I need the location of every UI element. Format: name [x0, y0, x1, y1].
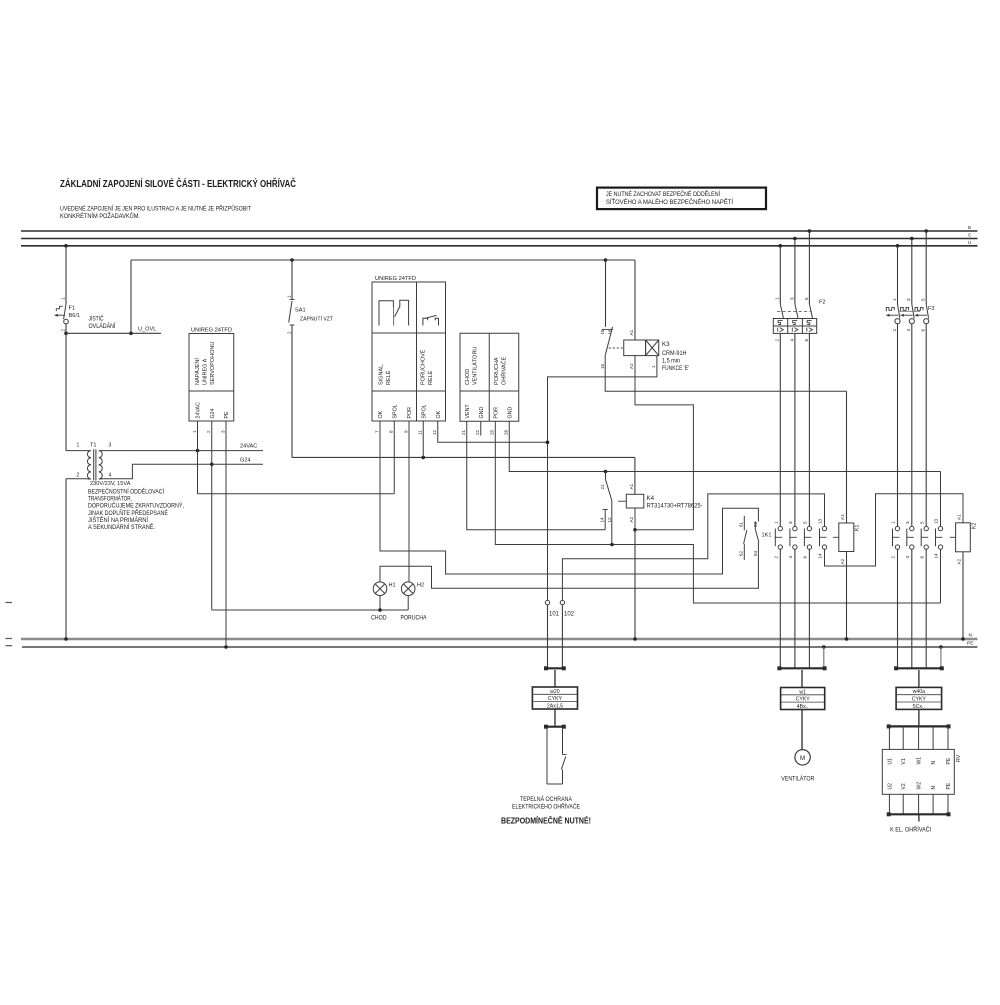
- svg-text:JE NUTNÉ ZACHOVAT BEZPEČNÉ ODD: JE NUTNÉ ZACHOVAT BEZPEČNÉ ODDĚLENÍ: [606, 190, 720, 198]
- terminal 102: [560, 600, 564, 604]
- svg-text:A SEKUNDÁRNÍ STRANĚ.: A SEKUNDÁRNÍ STRANĚ.: [88, 523, 155, 531]
- svg-text:U: U: [968, 240, 971, 245]
- svg-text:21: 21: [461, 429, 466, 435]
- svg-text:F3: F3: [928, 306, 935, 312]
- svg-text:2: 2: [892, 329, 897, 332]
- svg-text:8: 8: [389, 430, 394, 433]
- svg-text:A2: A2: [629, 363, 634, 369]
- svg-text:PE: PE: [224, 411, 230, 419]
- heater clamp bottom: [889, 813, 949, 815]
- svg-text:BEZPEČNOSTNÍ ODDĚLOVACÍ: BEZPEČNOSTNÍ ODDĚLOVACÍ: [88, 488, 164, 496]
- svg-text:w1: w1: [799, 689, 806, 695]
- svg-text:JIŠTĚNÍ NA PRIMÁRNÍ: JIŠTĚNÍ NA PRIMÁRNÍ: [88, 516, 148, 524]
- svg-text:DOPORUČUJEME ZKRATUVZDORNÝ,: DOPORUČUJEME ZKRATUVZDORNÝ,: [88, 503, 184, 510]
- svg-text:FUNKCE 'E': FUNKCE 'E': [662, 365, 689, 372]
- svg-text:POR: POR: [494, 407, 500, 419]
- node F1 tap on rail L3: [64, 244, 68, 248]
- K1 main contact pole 1: [778, 526, 782, 530]
- svg-text:3: 3: [906, 298, 911, 301]
- switch SA1: [291, 260, 293, 300]
- F3 pole 2 tap: [910, 237, 914, 241]
- svg-text:A1: A1: [840, 514, 845, 520]
- svg-text:B6/1: B6/1: [69, 313, 81, 319]
- F2 pole 3 tap: [808, 229, 812, 233]
- wire 102 to contact K1 aux 13: [562, 494, 824, 601]
- F2 magnetic release glyph: [777, 328, 779, 332]
- svg-text:N: N: [969, 633, 973, 639]
- svg-text:VENTILÁTOR: VENTILÁTOR: [781, 776, 815, 783]
- wire U_OVL riser to control bus: [130, 260, 132, 333]
- svg-text:4: 4: [788, 556, 793, 559]
- 1K1 contact 53-54 (NO): [754, 522, 756, 530]
- svg-text:4Bx..: 4Bx..: [797, 704, 809, 710]
- svg-text:K3: K3: [662, 341, 670, 348]
- F2 pole 1 lower wire to contactor K1: [779, 333, 781, 526]
- svg-text:H1: H1: [389, 583, 396, 589]
- F2 thermal release glyph: [778, 321, 783, 325]
- svg-text:4: 4: [789, 339, 794, 342]
- svg-text:UNIREG 24TFD: UNIREG 24TFD: [375, 276, 416, 282]
- svg-text:UNIREG A: UNIREG A: [203, 358, 209, 385]
- svg-text:13: 13: [934, 518, 939, 524]
- F2 pole 2 lower wire to contactor K1: [794, 333, 796, 526]
- rail L3 (bottom bus): [21, 245, 978, 247]
- terminal 101: [545, 600, 549, 604]
- F2 mechanical link: [777, 311, 812, 313]
- svg-text:PE: PE: [967, 641, 973, 647]
- svg-text:A2: A2: [840, 558, 845, 564]
- svg-text:4: 4: [905, 556, 910, 559]
- rail L1 (top bus): [21, 230, 978, 232]
- F2 release box: [773, 319, 816, 334]
- svg-text:M: M: [800, 755, 805, 762]
- node T1 return on rail N: [64, 637, 68, 641]
- svg-text:A1: A1: [629, 329, 634, 335]
- svg-text:G24: G24: [210, 408, 216, 418]
- heater terminal leads top: [888, 726, 890, 749]
- svg-text:11: 11: [418, 430, 423, 435]
- svg-text:SÍŤOVÉHO A MALÉHO BEZPEČNÉHO N: SÍŤOVÉHO A MALÉHO BEZPEČNÉHO NAPĚTÍ: [606, 198, 733, 206]
- wire T1 primary pin 2 to rail N: [66, 478, 88, 480]
- svg-text:VENT: VENT: [465, 404, 471, 419]
- node U_OVL junction: [64, 332, 68, 336]
- svg-text:3: 3: [109, 443, 112, 449]
- wire 101 to thermal protection: [547, 605, 549, 669]
- svg-text:SPOL: SPOL: [421, 404, 427, 418]
- wire K2 coil A2 to rail N: [962, 552, 964, 639]
- K1 main contact pole 3: [807, 526, 811, 530]
- svg-text:15: 15: [600, 363, 605, 369]
- svg-text:1: 1: [651, 365, 656, 368]
- svg-text:CYKY: CYKY: [796, 697, 811, 703]
- svg-text:1: 1: [774, 521, 779, 524]
- svg-text:1: 1: [286, 295, 291, 298]
- heater terminal clamp top: [889, 725, 949, 727]
- wire rail L3 to F1: [65, 246, 67, 304]
- svg-text:3: 3: [789, 297, 794, 300]
- svg-text:K4: K4: [647, 495, 655, 502]
- svg-text:3: 3: [221, 430, 226, 433]
- node K1 A2 on rail N: [845, 637, 849, 641]
- svg-text:BEZPODMÍNEČNĚ NUTNÉ!: BEZPODMÍNEČNĚ NUTNÉ!: [501, 815, 591, 826]
- svg-text:14: 14: [934, 553, 939, 559]
- svg-text:A2: A2: [629, 516, 634, 522]
- svg-text:N: N: [931, 786, 937, 790]
- svg-text:W2: W2: [917, 782, 923, 790]
- wire U_OVL: [66, 332, 161, 334]
- svg-text:B: B: [968, 225, 971, 230]
- svg-text:13: 13: [818, 518, 823, 524]
- svg-text:1: 1: [892, 298, 897, 301]
- rail N (bottom): [21, 638, 978, 640]
- F2 thermal release glyph: [793, 321, 798, 325]
- K1 pole 3 wire to cable w1: [808, 549, 810, 668]
- svg-text:62: 62: [739, 550, 744, 556]
- svg-text:w20: w20: [550, 689, 560, 695]
- K2 pole 3 wire to cable w40a: [925, 549, 927, 668]
- svg-text:2: 2: [60, 329, 65, 332]
- 1K1 contact 61-62 (NC, unconnected): [743, 516, 745, 530]
- svg-text:6: 6: [803, 556, 808, 559]
- svg-text:26: 26: [504, 429, 509, 435]
- svg-text:2Ax1,5: 2Ax1,5: [547, 703, 563, 709]
- svg-text:230V/23V, 15VA: 230V/23V, 15VA: [90, 481, 131, 487]
- cable w20 clamp top: [546, 667, 564, 669]
- F2 pole 3 lower wire to contactor K1: [808, 333, 810, 526]
- wire K1 aux 14 to K2 coil A1: [825, 494, 964, 566]
- motor M ventilator: [795, 750, 810, 765]
- svg-text:VENTILÁTORU: VENTILÁTORU: [472, 347, 479, 385]
- K3 contact 15-16-18: [605, 260, 607, 327]
- rail PE (bottom): [22, 646, 978, 648]
- svg-text:1,5 min: 1,5 min: [662, 358, 680, 365]
- svg-text:OVLÁDÁNÍ: OVLÁDÁNÍ: [89, 323, 116, 330]
- svg-text:4: 4: [906, 329, 911, 332]
- svg-text:NAPÁJENÍ: NAPÁJENÍ: [194, 358, 201, 385]
- svg-text:5: 5: [803, 521, 808, 524]
- lamp H1 CHOD: [373, 582, 387, 596]
- T1 secondary winding: [99, 451, 103, 479]
- svg-text:K2: K2: [972, 523, 978, 529]
- svg-text:ZÁKLADNÍ ZAPOJENÍ SILOVÉ ČÁSTI: ZÁKLADNÍ ZAPOJENÍ SILOVÉ ČÁSTI - ELEKTRI…: [60, 178, 296, 190]
- svg-text:4: 4: [109, 473, 112, 479]
- F3 pole 1 tap: [896, 244, 900, 248]
- svg-text:UNIREG 24TFD: UNIREG 24TFD: [191, 328, 232, 334]
- wire SA1 to K4 A1: [291, 325, 293, 457]
- svg-text:24VAC: 24VAC: [196, 402, 202, 419]
- svg-text:W1: W1: [917, 757, 923, 765]
- svg-text:CHOD: CHOD: [465, 369, 471, 385]
- wire T1 primary pin 1: [65, 333, 67, 450]
- svg-text:61: 61: [739, 521, 744, 527]
- svg-text:POR: POR: [407, 407, 413, 419]
- svg-text:5: 5: [921, 298, 926, 301]
- F2 thermal release glyph: [807, 321, 812, 325]
- node K4 A2 on rail N: [633, 637, 637, 641]
- svg-text:V1: V1: [901, 758, 907, 764]
- svg-text:2: 2: [206, 430, 211, 433]
- svg-text:CHOD: CHOD: [371, 616, 387, 622]
- svg-text:TRANSFORMÁTOR,: TRANSFORMÁTOR,: [88, 496, 132, 503]
- svg-text:1: 1: [775, 297, 780, 300]
- K1 main contact pole 2: [793, 526, 797, 530]
- K3 timer X box: [646, 340, 659, 356]
- K1 pole 2 wire to cable w1: [794, 549, 796, 668]
- F2 magnetic release glyph: [791, 328, 793, 332]
- F2 magnetic release glyph: [806, 328, 808, 332]
- svg-text:K EL. OHŘÍVAČI: K EL. OHŘÍVAČI: [890, 825, 931, 833]
- F3 pole 3 tap: [924, 229, 928, 233]
- svg-text:RELÉ: RELÉ: [385, 370, 392, 385]
- K1 aux contact 13-14: [822, 526, 826, 530]
- svg-text:OHŘÍVAČE: OHŘÍVAČE: [499, 356, 507, 385]
- svg-text:KONKRÉTNÍM POŽADAVKŮM.: KONKRÉTNÍM POŽADAVKŮM.: [60, 212, 140, 220]
- svg-text:12: 12: [607, 517, 612, 523]
- svg-text:SERVOPOHONU: SERVOPOHONU: [210, 342, 216, 385]
- svg-text:GND: GND: [508, 407, 514, 419]
- svg-text:7: 7: [375, 430, 380, 433]
- svg-text:ELEKTRICKÉHO OHŘÍVAČE: ELEKTRICKÉHO OHŘÍVAČE: [512, 802, 580, 810]
- K2 aux contact 13-14: [940, 472, 942, 527]
- svg-text:2: 2: [775, 339, 780, 342]
- svg-text:101: 101: [549, 612, 560, 618]
- wire T1 secondary pin 4 net G24: [102, 464, 263, 479]
- wire K1 coil A2 to rail N: [846, 552, 848, 640]
- svg-text:U_OVL: U_OVL: [138, 327, 156, 333]
- svg-text:CRM-91H: CRM-91H: [662, 350, 687, 357]
- F2 pole 2 tap: [793, 237, 797, 241]
- rail L2 (middle bus): [21, 238, 978, 240]
- svg-text:53: 53: [753, 521, 758, 527]
- wire K2 aux 14 down: [940, 549, 942, 603]
- wire T1 secondary pin 3 net 24VAC: [102, 450, 263, 452]
- node K2 A2 on rail N: [961, 637, 965, 641]
- T1 core: [93, 449, 95, 480]
- svg-text:N: N: [931, 761, 937, 765]
- svg-text:21: 21: [600, 484, 605, 490]
- svg-text:H2: H2: [417, 583, 424, 589]
- svg-text:CYKY: CYKY: [548, 696, 563, 702]
- svg-text:14: 14: [818, 553, 823, 559]
- svg-text:U1: U1: [887, 758, 893, 765]
- U2 changeover contact symbol: [379, 301, 393, 326]
- svg-text:GND: GND: [479, 407, 485, 419]
- K2 pole 1 wire to cable w40a: [897, 549, 899, 668]
- svg-text:RELÉ: RELÉ: [427, 370, 434, 385]
- svg-text:PORUCHA: PORUCHA: [494, 357, 500, 385]
- svg-text:SIGNAL.: SIGNAL.: [378, 363, 384, 385]
- svg-text:6: 6: [804, 339, 809, 342]
- svg-text:V2: V2: [901, 783, 907, 789]
- wire control bus 260: [131, 259, 635, 261]
- svg-text:F1: F1: [69, 306, 76, 312]
- K1 pole 1 wire to cable w1: [779, 549, 781, 668]
- svg-text:A1: A1: [629, 483, 634, 489]
- svg-text:3: 3: [905, 521, 910, 524]
- svg-text:6: 6: [921, 329, 926, 332]
- svg-text:6: 6: [919, 556, 924, 559]
- cable w20 clamp bottom: [546, 726, 564, 728]
- svg-text:PORUCHOVÉ: PORUCHOVÉ: [419, 349, 426, 385]
- svg-text:5: 5: [804, 297, 809, 300]
- cable w1 box: [801, 670, 803, 688]
- svg-text:CYKY: CYKY: [912, 697, 927, 703]
- svg-text:25: 25: [490, 429, 495, 435]
- K2 main contact pole 3: [924, 526, 928, 530]
- svg-text:24VAC: 24VAC: [240, 444, 257, 450]
- wire F1 to node U_OVL: [65, 324, 67, 333]
- svg-text:T1: T1: [90, 443, 97, 449]
- svg-text:5: 5: [919, 521, 924, 524]
- svg-text:SA1: SA1: [295, 308, 306, 314]
- F3 pole 2 lower wire to contactor K2: [911, 324, 913, 527]
- left margin continuation dashes: [6, 602, 13, 604]
- wire PE to w1 clamp: [823, 647, 825, 668]
- svg-text:w40a: w40a: [913, 689, 926, 695]
- K2 pole 2 wire to cable w40a: [911, 549, 913, 668]
- svg-text:F2: F2: [819, 300, 826, 306]
- svg-text:2: 2: [77, 473, 80, 479]
- svg-text:U2: U2: [887, 783, 893, 790]
- wire PE to w40a clamp: [940, 647, 942, 668]
- K3 dashed actuator link: [609, 347, 624, 349]
- wire H1 top to contact 1K1-54: [380, 552, 758, 589]
- svg-text:JINAK DOPLŇTE PŘEDEPSANÉ: JINAK DOPLŇTE PŘEDEPSANÉ: [88, 509, 168, 517]
- svg-text:1K1: 1K1: [762, 533, 772, 539]
- svg-text:2: 2: [891, 556, 896, 559]
- svg-text:A1: A1: [957, 514, 962, 520]
- svg-text:2: 2: [286, 331, 291, 334]
- U2 NO contact symbol: [423, 318, 428, 325]
- wire H1 bottom to net G24: [379, 596, 381, 611]
- wire K3 contact 15 to K1 coil A1: [605, 356, 846, 392]
- svg-text:PORUCHA: PORUCHA: [401, 616, 427, 622]
- wire control bus to K3 A1: [634, 260, 636, 340]
- thermal protection contact: [546, 729, 548, 784]
- svg-text:SPOL: SPOL: [392, 404, 398, 418]
- svg-text:102: 102: [564, 612, 575, 618]
- node PE tap for cable w1: [822, 645, 826, 649]
- K2 main contact pole 1: [895, 526, 899, 530]
- svg-text:ZAPNUTÍ VZT: ZAPNUTÍ VZT: [300, 316, 334, 323]
- svg-text:3: 3: [788, 521, 793, 524]
- svg-text:14: 14: [599, 517, 604, 523]
- svg-text:PE: PE: [946, 757, 952, 764]
- cable w20 box: [554, 670, 556, 687]
- svg-text:2: 2: [774, 556, 779, 559]
- T1 primary winding: [87, 451, 91, 479]
- svg-text:A2: A2: [957, 558, 962, 564]
- F3 pole 1 lower wire to contactor K2: [897, 324, 899, 527]
- K4 contact 21-14-12: [605, 472, 607, 480]
- node PE tap for cable w40a: [939, 645, 943, 649]
- svg-text:9: 9: [404, 430, 409, 433]
- svg-text:54: 54: [753, 550, 758, 556]
- F3 pole 3 lower wire to contactor K2: [925, 324, 927, 527]
- svg-text:RT314730+RT78625-: RT314730+RT78625-: [647, 503, 703, 510]
- svg-text:1: 1: [891, 521, 896, 524]
- warning note box: [597, 188, 766, 210]
- svg-text:K1: K1: [855, 525, 861, 531]
- svg-text:1: 1: [192, 430, 197, 433]
- wire H2 bottom to net G24: [407, 596, 409, 611]
- F3 mechanical link: [899, 310, 921, 312]
- svg-text:OK: OK: [378, 410, 384, 418]
- cable w1 clamp: [779, 667, 824, 669]
- svg-text:12: 12: [432, 429, 437, 435]
- K2 main contact pole 2: [910, 526, 914, 530]
- svg-text:OK: OK: [436, 410, 442, 418]
- svg-text:22: 22: [475, 429, 480, 435]
- terminal box RV: [882, 749, 954, 794]
- svg-text:RV: RV: [956, 754, 962, 762]
- svg-text:PE: PE: [946, 782, 952, 789]
- module U3 signal terminals: [460, 333, 519, 421]
- lamp H2 PORUCHA: [401, 582, 415, 596]
- svg-text:UVEDENÉ ZAPOJENÍ JE JEN PRO IL: UVEDENÉ ZAPOJENÍ JE JEN PRO ILUSTRACI A …: [60, 205, 251, 213]
- svg-text:TEPELNÁ OCHRANA: TEPELNÁ OCHRANA: [520, 796, 572, 803]
- svg-text:5Cx..: 5Cx..: [913, 704, 925, 710]
- svg-text:1: 1: [60, 297, 65, 300]
- F2 pole 1 tap: [779, 244, 783, 248]
- cable w40a box: [918, 670, 920, 687]
- svg-text:1: 1: [77, 443, 80, 449]
- svg-text:G24: G24: [240, 457, 251, 463]
- svg-text:JISTIČ: JISTIČ: [89, 316, 105, 323]
- cable w40a clamp: [896, 667, 942, 669]
- heater terminal leads bottom: [888, 794, 890, 814]
- wire 102 to thermal protection: [561, 605, 563, 669]
